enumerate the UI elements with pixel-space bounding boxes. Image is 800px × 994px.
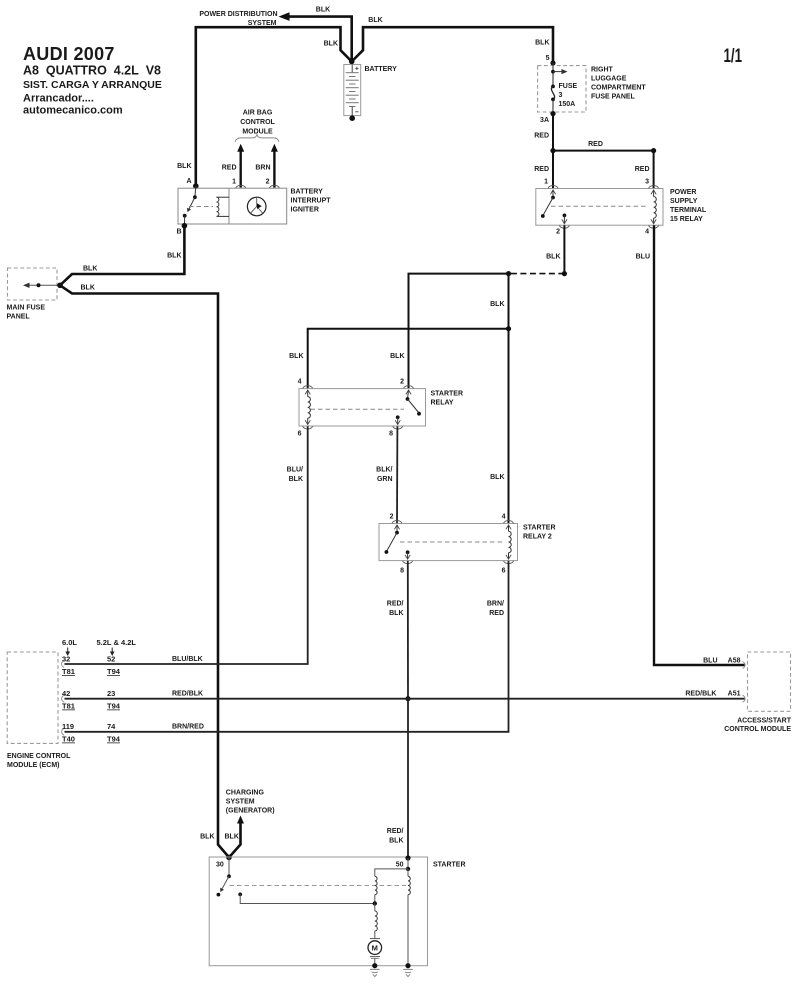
svg-text:50: 50 — [396, 862, 404, 869]
svg-text:+: + — [355, 66, 359, 73]
node starter solenoid ground terminal — [405, 963, 410, 968]
svg-text:A8 QUATTRO 4.2L V8: A8 QUATTRO 4.2L V8 — [23, 64, 161, 78]
svg-text:BLK: BLK — [225, 834, 239, 841]
starter relay box — [299, 389, 463, 426]
svg-text:4: 4 — [298, 379, 302, 386]
svg-text:BLK: BLK — [389, 610, 403, 617]
svg-text:CHARGING: CHARGING — [226, 790, 265, 797]
node B (igniter pin B) — [176, 223, 187, 236]
pin 2 connector mark igniter — [269, 185, 279, 188]
svg-text:BLK: BLK — [490, 301, 504, 308]
svg-text:SYSTEM: SYSTEM — [226, 799, 255, 806]
label pin 2 starter relay 2 — [390, 514, 394, 521]
pin 4 connector mark starter relay — [303, 386, 313, 395]
node battery negative terminal — [349, 115, 355, 121]
coil inside starter relay — [308, 390, 311, 424]
svg-text:POWER DISTRIBUTION: POWER DISTRIBUTION — [199, 11, 277, 18]
svg-text:74: 74 — [107, 722, 116, 731]
switch inside starter relay — [311, 390, 421, 424]
label pin 6 starter relay — [298, 431, 302, 438]
node BLK junction lower — [506, 326, 511, 331]
access/start control module (dashed box) — [724, 652, 791, 733]
svg-text:BATTERY: BATTERY — [365, 66, 398, 73]
label pin 8 starter relay 2 — [400, 568, 404, 575]
svg-text:ENGINE CONTROL: ENGINE CONTROL — [7, 753, 71, 760]
wire RED/BLK starter relay 2 pin 8 down — [387, 561, 408, 699]
svg-text:BLK: BLK — [389, 838, 403, 845]
svg-text:BLK: BLK — [546, 254, 560, 261]
svg-text:23: 23 — [107, 689, 115, 698]
wire RED/BLK junction to starter pin 50 — [387, 699, 408, 858]
node starter motor ground terminal — [372, 963, 377, 968]
wire BLK battery to right luggage fuse panel pin 5 — [352, 17, 553, 63]
svg-text:RELAY 2: RELAY 2 — [523, 534, 552, 541]
wire RED to relay pin 1 — [534, 151, 553, 188]
svg-text:POWER: POWER — [670, 189, 696, 196]
svg-text:BLK: BLK — [177, 163, 191, 170]
svg-text:−: − — [355, 109, 359, 116]
right luggage compartment fuse panel (dashed box) — [538, 66, 647, 112]
svg-text:SIST. CARGA Y ARRANQUE: SIST. CARGA Y ARRANQUE — [23, 79, 162, 91]
svg-text:BLK: BLK — [324, 41, 338, 48]
svg-text:5.2L & 4.2L: 5.2L & 4.2L — [97, 638, 137, 647]
svg-text:BLK: BLK — [200, 834, 214, 841]
svg-text:BRN: BRN — [255, 165, 270, 172]
svg-text:BLK: BLK — [289, 476, 303, 483]
svg-text:BLK: BLK — [390, 353, 404, 360]
svg-text:AIR BAG: AIR BAG — [243, 110, 273, 117]
svg-text:2: 2 — [266, 179, 270, 186]
wire BLU/BLK starter relay pin 6 to ECM — [65, 426, 308, 664]
pin A51 connector mark — [743, 695, 746, 702]
pin 119/74 connector mark ECM — [62, 728, 65, 735]
title block — [23, 44, 162, 117]
pin 32/52 connector mark ECM — [62, 661, 65, 668]
pin 8 connector mark starter relay 2 — [403, 555, 413, 564]
svg-text:8: 8 — [389, 431, 393, 438]
svg-text:AUDI 2007: AUDI 2007 — [23, 44, 115, 64]
svg-text:BRN/: BRN/ — [487, 601, 504, 608]
node RED/BLK junction — [405, 696, 410, 701]
svg-text:BLK: BLK — [81, 285, 95, 292]
svg-text:15 RELAY: 15 RELAY — [670, 216, 703, 223]
pin 42/23 connector mark ECM — [62, 695, 65, 702]
svg-text:T94: T94 — [107, 735, 121, 744]
svg-text:150A: 150A — [559, 101, 576, 108]
wire BLK junction lower to starter relay 2 pin 4 — [490, 329, 508, 524]
svg-text:3A: 3A — [540, 117, 549, 124]
switch inside power supply relay — [541, 190, 648, 224]
wire tap inside fuse panel (arrow right) — [551, 63, 567, 86]
svg-text:M: M — [372, 943, 378, 952]
node POWER DISTRIBUTION SYSTEM — [199, 11, 277, 27]
svg-text:T94: T94 — [107, 667, 121, 676]
wire BRN/RED starter relay 2 pin 6 to ECM — [65, 561, 509, 732]
svg-text:T81: T81 — [62, 702, 75, 711]
node battery positive junction — [349, 59, 355, 65]
wire RED to relay pin 3 — [635, 151, 654, 188]
svg-text:RED/BLK: RED/BLK — [685, 691, 716, 698]
svg-text:8: 8 — [400, 568, 404, 575]
svg-text:CONTROL MODULE: CONTROL MODULE — [724, 726, 791, 733]
svg-text:ACCESS/START: ACCESS/START — [737, 718, 792, 725]
fuse F3 150A — [551, 83, 577, 114]
battery interrupt igniter box — [178, 188, 331, 224]
wire BLK dashed junction link — [509, 273, 565, 275]
pin 6 connector mark starter relay — [303, 420, 313, 429]
svg-text:(GENERATOR): (GENERATOR) — [226, 808, 275, 815]
svg-text:2: 2 — [400, 379, 404, 386]
wire BLK relay pin 2 down — [546, 225, 564, 273]
svg-text:Arrancador....: Arrancador.... — [23, 93, 94, 105]
node starter pin 50 — [396, 855, 411, 868]
svg-text:RED/: RED/ — [387, 828, 404, 835]
wire BLK main fuse panel to starter pin 30 — [60, 285, 229, 858]
svg-text:3: 3 — [645, 179, 649, 186]
label pin 6 starter relay 2 — [502, 568, 506, 575]
pin 4 connector mark relay — [649, 219, 659, 228]
starter relay 2 box — [379, 524, 556, 561]
svg-text:2: 2 — [390, 514, 394, 521]
node fuse panel pin 5 — [546, 55, 556, 66]
svg-text:RELAY: RELAY — [431, 400, 454, 407]
ground (motor) — [370, 969, 380, 976]
svg-text:42: 42 — [62, 689, 70, 698]
svg-text:32: 32 — [62, 655, 70, 664]
label column 6.0L with arrow — [62, 638, 77, 656]
wire BLK igniter pin B to main fuse panel — [60, 226, 184, 286]
svg-text:MODULE: MODULE — [242, 129, 273, 136]
svg-text:RIGHT: RIGHT — [591, 67, 614, 74]
node CHARGING SYSTEM (GENERATOR) — [226, 790, 275, 815]
label column 5.2L & 4.2L with arrow — [97, 638, 137, 656]
label pin 8 starter relay — [389, 431, 393, 438]
svg-text:BATTERY: BATTERY — [291, 189, 324, 196]
switch inside igniter — [183, 186, 213, 225]
svg-text:BLK: BLK — [289, 353, 303, 360]
wire BRN/RED row ECM pin 119/74 (labels) — [62, 722, 121, 744]
node starter pin 30 — [216, 855, 232, 869]
svg-text:T40: T40 — [62, 735, 75, 744]
wire BLK/GRN starter relay pin 8 to starter relay 2 pin 2 — [376, 426, 397, 523]
svg-text:RED/: RED/ — [387, 601, 404, 608]
svg-text:5: 5 — [546, 55, 550, 62]
svg-text:A: A — [186, 178, 191, 185]
pin 2 connector mark relay — [559, 219, 569, 228]
svg-text:FUSE: FUSE — [559, 83, 578, 90]
pin 8 connector mark starter relay — [393, 420, 403, 429]
wire RED/BLK row ECM to access/start control module — [62, 689, 745, 711]
svg-text:STARTER: STARTER — [523, 525, 556, 532]
node main fuse panel junction — [57, 283, 63, 289]
svg-text:T81: T81 — [62, 667, 75, 676]
wire BLU relay pin 4 to A58 — [636, 225, 745, 665]
svg-text:BLU: BLU — [703, 658, 717, 665]
wire BLK junction mid down — [490, 274, 508, 329]
coil inside igniter — [217, 197, 230, 216]
svg-text:GRN: GRN — [377, 476, 393, 483]
motor M starter — [368, 939, 382, 966]
svg-text:3: 3 — [559, 92, 563, 99]
svg-text:6: 6 — [298, 431, 302, 438]
svg-text:IGNITER: IGNITER — [291, 207, 319, 214]
svg-text:MAIN FUSE: MAIN FUSE — [7, 305, 46, 312]
svg-text:A58: A58 — [728, 658, 741, 665]
svg-text:B: B — [176, 229, 181, 236]
svg-text:FUSE PANEL: FUSE PANEL — [591, 94, 636, 101]
svg-text:T94: T94 — [107, 702, 121, 711]
svg-text:6.0L: 6.0L — [62, 638, 77, 647]
svg-text:RED: RED — [635, 166, 650, 173]
svg-text:BLK: BLK — [368, 17, 382, 24]
pin 2 connector mark starter relay — [404, 386, 414, 395]
switch inside starter relay 2 — [385, 525, 505, 559]
pin 4 connector mark starter relay 2 — [504, 521, 514, 530]
svg-text:RED: RED — [588, 141, 603, 148]
wire BRN igniter pin 2 to air bag control module (arrow) — [255, 144, 278, 188]
svg-text:1: 1 — [232, 179, 236, 186]
node 3A (fuse panel output) — [540, 111, 556, 124]
wire inside main fuse panel (arrow left) — [23, 283, 60, 288]
label starter relay pin 4 — [298, 379, 302, 386]
coil inside power supply relay — [654, 190, 657, 224]
svg-text:BRN/RED: BRN/RED — [172, 724, 204, 731]
pin 6 connector mark starter relay 2 — [504, 555, 514, 564]
wire BLK to starter relay pin 4 — [289, 329, 508, 389]
pin 1 connector mark relay — [548, 186, 558, 195]
wire RED junction to junction right — [553, 141, 654, 151]
starter box — [209, 857, 465, 966]
label pin 2 — [556, 229, 560, 236]
svg-text:RED: RED — [489, 610, 504, 617]
battery — [344, 65, 397, 117]
main fuse panel (dashed box) — [7, 268, 58, 321]
pin 3 connector mark relay — [649, 186, 659, 195]
svg-text:PANEL: PANEL — [7, 314, 31, 321]
svg-text:30: 30 — [216, 862, 224, 869]
wire RED igniter pin 1 to air bag control module (arrow) — [222, 144, 244, 188]
svg-text:1: 1 — [544, 179, 548, 186]
svg-text:RED: RED — [534, 133, 549, 140]
svg-text:BLK: BLK — [83, 266, 97, 273]
power supply terminal 15 relay box — [536, 189, 707, 226]
pin 1 connector mark igniter — [236, 185, 246, 188]
node A (igniter pin A) — [186, 178, 198, 189]
svg-text:RED/BLK: RED/BLK — [172, 691, 203, 698]
node BLK junction mid — [506, 271, 511, 276]
igniter squib symbol (circle) — [247, 197, 266, 216]
svg-text:BLK: BLK — [490, 474, 504, 481]
wire RED fuse to junction — [534, 114, 553, 151]
label pin 4 — [645, 229, 649, 236]
svg-text:STARTER: STARTER — [431, 391, 464, 398]
svg-text:6: 6 — [502, 568, 506, 575]
svg-text:119: 119 — [62, 722, 74, 731]
svg-text:RED: RED — [222, 165, 237, 172]
svg-text:SUPPLY: SUPPLY — [670, 198, 698, 205]
svg-text:A51: A51 — [728, 691, 741, 698]
svg-text:BLK: BLK — [535, 40, 549, 47]
node motor junction — [373, 901, 377, 905]
pin A58 connector mark — [743, 662, 746, 669]
motor coil starter — [375, 904, 378, 939]
svg-text:2: 2 — [556, 229, 560, 236]
wire BLK battery to battery interrupt igniter pin A — [177, 27, 352, 186]
node AIR BAG CONTROL MODULE — [235, 110, 279, 142]
svg-text:RED: RED — [534, 166, 549, 173]
svg-text:52: 52 — [107, 655, 115, 664]
ground (solenoid) — [403, 969, 413, 976]
svg-text:1/1: 1/1 — [724, 45, 743, 67]
svg-text:CONTROL: CONTROL — [240, 119, 275, 126]
node BLK junction right — [562, 271, 567, 276]
label starter relay pin 2 — [400, 379, 404, 386]
wire 30 contact to motor junction — [240, 894, 375, 903]
svg-text:STARTER: STARTER — [433, 862, 466, 869]
svg-text:BLK: BLK — [316, 7, 330, 14]
svg-text:TERMINAL: TERMINAL — [670, 207, 707, 214]
coil inside starter relay 2 — [509, 525, 512, 559]
svg-text:4: 4 — [645, 229, 649, 236]
wire BLK battery to power distribution system (arrow) — [279, 7, 352, 62]
pin 2 connector mark starter relay 2 — [392, 521, 402, 530]
wire BLK to starter relay pin 2 — [390, 274, 508, 389]
wire starter pin 50 internal — [375, 858, 410, 876]
hold-in coil starter — [375, 876, 377, 903]
svg-text:BLU: BLU — [636, 254, 650, 261]
node RED junction right — [651, 148, 656, 153]
svg-text:automecanico.com: automecanico.com — [23, 105, 123, 117]
svg-text:LUGGAGE: LUGGAGE — [591, 76, 627, 83]
svg-text:BLU/: BLU/ — [287, 467, 303, 474]
svg-text:BLU/BLK: BLU/BLK — [172, 656, 203, 663]
wire BLK starter 30 to charging system (arrow) — [200, 816, 244, 858]
label pin 4 starter relay 2 — [502, 514, 506, 521]
pull-in coil starter — [408, 869, 410, 966]
wire BLU/BLK row ECM pin 32/52 (labels) — [62, 655, 121, 677]
svg-text:INTERRUPT: INTERRUPT — [291, 198, 332, 205]
page number 1/1 — [724, 45, 743, 67]
svg-text:4: 4 — [502, 514, 506, 521]
svg-text:MODULE (ECM): MODULE (ECM) — [7, 762, 60, 769]
svg-text:BLK: BLK — [167, 253, 181, 260]
svg-text:COMPARTMENT: COMPARTMENT — [591, 85, 646, 92]
svg-text:BLK/: BLK/ — [376, 467, 392, 474]
switch inside starter (30 contact) — [217, 857, 407, 896]
node RED junction left — [550, 148, 555, 153]
engine control module (dashed box) — [7, 652, 71, 769]
